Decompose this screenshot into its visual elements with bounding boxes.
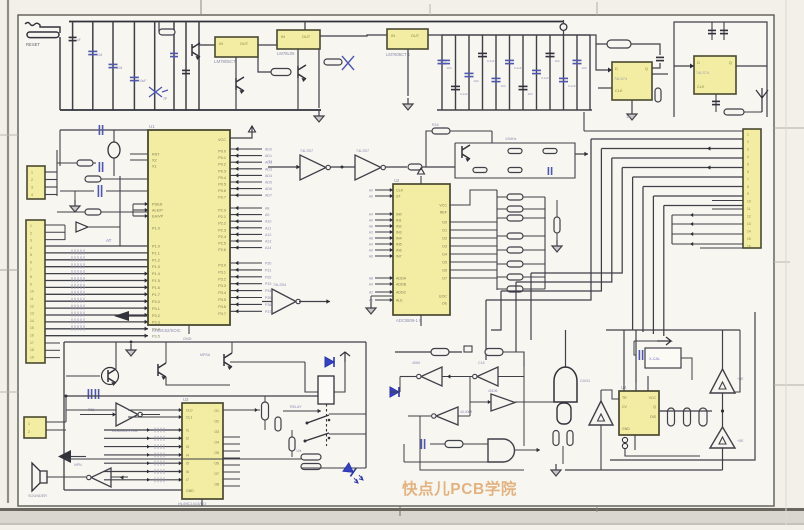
svg-text:GND: GND: [183, 337, 192, 341]
and gate feed b: [404, 461, 488, 463]
bus wire B4: [622, 167, 743, 169]
svg-text:2: 2: [28, 430, 30, 434]
bus wire B3 vertical: [516, 158, 612, 282]
capacitor C31 v: [275, 417, 281, 431]
ladder resistor R22: [507, 215, 523, 221]
J4 top feed vert: [583, 112, 585, 131]
Q12 to rail: [297, 78, 299, 110]
J4 short wire c3: [672, 243, 743, 245]
osc out arrow: [575, 153, 588, 155]
svg-text:P2.3: P2.3: [218, 228, 226, 232]
display driver U3: [182, 403, 223, 499]
U6 top drop wire: [304, 22, 306, 31]
J2 bus wire 10: [45, 307, 148, 309]
FF2 right wire: [736, 65, 767, 67]
svg-text:4: 4: [747, 155, 749, 159]
svg-text:T1: T1: [268, 160, 272, 164]
svg-text:VCC: VCC: [649, 396, 657, 400]
ladder resistor R23: [507, 233, 523, 239]
U1 port2 pin wires: [230, 207, 262, 209]
svg-text:RESET: RESET: [26, 42, 40, 47]
J2 bus wire 5: [45, 273, 148, 275]
svg-text:P2.6: P2.6: [218, 248, 226, 252]
svg-text:12: 12: [747, 215, 751, 219]
svg-text:P30: P30: [265, 262, 271, 266]
J1 pin 4 wire: [45, 194, 57, 196]
op-amp A1: [710, 369, 735, 393]
U15 out wire: [515, 449, 541, 451]
small box R35: [464, 346, 472, 352]
decoupling branch wire 5: [154, 22, 156, 111]
U2 left pin stubs: [375, 189, 393, 191]
svg-text:P3.4: P3.4: [152, 328, 160, 332]
svg-text:I5: I5: [186, 462, 189, 466]
bottom rail wires: [66, 458, 301, 460]
bus wire B2: [601, 148, 743, 150]
zone tick top 3: [596, 2, 598, 15]
diode to gate wire: [390, 391, 400, 393]
U2 upper right wires: [450, 190, 497, 205]
svg-text:P3.1: P3.1: [218, 270, 226, 274]
svg-text:A8: A8: [369, 236, 373, 240]
decoupling branch wire 3: [112, 22, 114, 111]
diode D4 blue: [390, 387, 399, 397]
svg-text:104: 104: [582, 66, 587, 70]
filled arrow gnd: [58, 450, 71, 463]
svg-text:IN: IN: [391, 33, 395, 38]
U1 left stub join: [132, 204, 134, 216]
J4 top feed wire: [584, 130, 743, 132]
svg-text:I7: I7: [186, 478, 189, 482]
svg-text:U3: U3: [183, 397, 189, 402]
svg-text:O8: O8: [214, 483, 219, 487]
U12 in wire: [80, 414, 116, 416]
switch lever 2: [305, 433, 329, 441]
relay block top wire: [230, 361, 305, 363]
bus wire B8 vertical: [663, 206, 665, 337]
J1 riser wire: [56, 150, 58, 196]
bank2 capacitor C13: [478, 52, 487, 54]
svg-text:15: 15: [747, 237, 751, 241]
Q2 collector: [165, 342, 167, 363]
U3 bottom stem: [201, 499, 203, 506]
svg-text:3: 3: [31, 186, 33, 190]
svg-text:NPN: NPN: [74, 463, 82, 467]
svg-text:P3.3: P3.3: [152, 321, 160, 325]
555 feed vert a: [623, 330, 625, 383]
svg-text:C4011: C4011: [580, 379, 590, 383]
svg-text:CL0: CL0: [186, 408, 192, 412]
U16 inputs wire: [538, 401, 554, 403]
cluster vert b: [119, 176, 121, 246]
resistor R9: [85, 176, 101, 182]
svg-text:P3.0: P3.0: [152, 300, 160, 304]
svg-text:A10: A10: [265, 220, 271, 224]
cluster vert a: [59, 130, 61, 166]
inverter U14A: [421, 367, 442, 386]
svg-text:I6: I6: [186, 470, 189, 474]
J2 bus wire 11: [45, 314, 148, 316]
crystal wires: [113, 130, 115, 142]
switch lever 1: [307, 415, 329, 423]
svg-text:PSEN: PSEN: [152, 203, 163, 207]
zone tick top 2: [429, 4, 431, 15]
vert link: [469, 377, 471, 417]
U4 pin texts: [622, 396, 630, 431]
svg-text:A4: A4: [369, 242, 373, 246]
C27 wires: [60, 190, 94, 192]
svg-text:104: 104: [447, 66, 452, 70]
bank2 capacitor C19: [559, 77, 568, 79]
bus wire B8: [664, 205, 743, 207]
wire to R2: [158, 22, 160, 33]
resistor R7: [724, 109, 744, 115]
op-amp A2: [710, 427, 735, 448]
svg-text:A0: A0: [369, 248, 373, 252]
svg-text:A0: A0: [369, 218, 373, 222]
inverter U14D: [436, 407, 458, 425]
J2 bus wire 1: [45, 245, 148, 247]
osc transistor Q13: [462, 145, 470, 159]
bank2 branch 3: [468, 35, 470, 110]
osc riser from buffer line: [426, 131, 432, 167]
shaper body: [557, 403, 571, 424]
svg-text:P33: P33: [265, 282, 271, 286]
zone tick right 3: [774, 384, 804, 386]
connector J4: [743, 129, 761, 248]
resistor R37: [445, 441, 463, 448]
svg-text:104: 104: [528, 92, 533, 96]
transistor Q12: [298, 65, 306, 79]
ladder resistor R26: [507, 274, 523, 280]
svg-text:P0.4: P0.4: [218, 176, 226, 180]
Q2 wires: [166, 377, 230, 385]
svg-text:10: 10: [30, 290, 34, 294]
svg-text:6: 6: [30, 261, 32, 265]
resistor R4: [324, 59, 342, 65]
and gate feed a: [430, 443, 445, 445]
svg-text:1k: 1k: [626, 114, 630, 119]
U1 bottom gnd arrow: [114, 311, 129, 321]
J2 bus wire 12: [45, 321, 148, 323]
svg-text:A2: A2: [369, 290, 373, 294]
bank2 branch 2: [455, 35, 457, 110]
svg-text:A9: A9: [265, 213, 269, 217]
svg-text:X1: X1: [152, 165, 157, 169]
J2 lower pin stubs: [45, 342, 60, 344]
J4 short wire c0: [672, 214, 743, 216]
J4 short wire c2: [672, 233, 743, 235]
svg-text:0.1uF: 0.1uF: [514, 66, 522, 70]
U2 gnd: [366, 302, 376, 314]
switch dashed link: [326, 404, 328, 446]
U14B wires: [457, 376, 472, 378]
svg-text:AD6: AD6: [265, 187, 272, 191]
U12 out wire: [141, 414, 160, 416]
svg-text:0.1uF: 0.1uF: [568, 84, 576, 88]
bus wire B7 vertical: [652, 196, 654, 334]
capacitor C32: [420, 439, 422, 449]
bank2 branch 9: [549, 35, 551, 110]
right outer vert: [610, 312, 755, 460]
FF2 enclosure wire: [674, 22, 767, 117]
svg-text:P36: P36: [265, 303, 271, 307]
bank2 branch 6: [509, 35, 511, 110]
bank2 branch 11: [576, 35, 578, 110]
zone tick left 3: [0, 391, 18, 393]
ground G6: [126, 344, 136, 356]
svg-text:P3.2: P3.2: [218, 277, 226, 281]
long wire mid audio 2: [66, 409, 116, 411]
U4 top pins: [623, 383, 625, 391]
A3 circ wire: [601, 390, 619, 399]
svg-text:A6: A6: [369, 224, 373, 228]
svg-text:A2: A2: [369, 230, 373, 234]
resistor R38 v: [553, 431, 559, 446]
resistor R10: [85, 209, 101, 215]
rail link down: [563, 20, 565, 24]
U3 right wires long: [223, 409, 260, 411]
U3 pin texts: [186, 408, 194, 493]
timer U4: [619, 391, 659, 435]
svg-text:P1.6: P1.6: [152, 286, 160, 290]
U2 D-pin wires: [450, 221, 497, 223]
svg-text:O2: O2: [214, 420, 219, 424]
cluster top wire: [60, 129, 148, 131]
audio block left wire: [63, 342, 65, 490]
resistor R30 vertical: [262, 402, 269, 420]
svg-text:TR: TR: [622, 396, 627, 400]
svg-text:CLK: CLK: [615, 89, 623, 93]
bus corner turns left: [485, 300, 487, 360]
resistor R39 v: [567, 431, 573, 446]
svg-text:AD4: AD4: [265, 174, 272, 178]
buffer out wire: [385, 166, 407, 168]
connector J3: [24, 417, 46, 438]
op-amp A3: [589, 401, 613, 425]
capacitor C0: [69, 36, 77, 38]
svg-text:CLK: CLK: [396, 189, 404, 193]
resistor R8: [77, 160, 93, 166]
svg-text:X2: X2: [152, 159, 157, 163]
svg-text:O4: O4: [214, 441, 219, 445]
J2 bus wire 7: [45, 286, 148, 288]
svg-text:10uF: 10uF: [139, 79, 146, 83]
bus wire B2 vertical: [501, 149, 601, 292]
svg-text:D3: D3: [442, 245, 447, 249]
J2 bus wire 4: [45, 266, 148, 268]
flip-flop U9: [694, 56, 736, 94]
J4 short wire b: [702, 167, 743, 169]
svg-text:P3.5: P3.5: [218, 298, 226, 302]
antenna symbol: [756, 88, 768, 112]
U1 left stub mid: [133, 203, 148, 205]
svg-text:P1.5: P1.5: [152, 279, 160, 283]
U4 bottom pin b: [634, 435, 636, 450]
diode arrow D1: [76, 222, 88, 232]
right margin streak: [785, 0, 787, 525]
regulator U5 input wire: [199, 44, 215, 46]
svg-text:IN3: IN3: [396, 231, 402, 235]
transistor Q10: [192, 43, 200, 57]
svg-text:P0.7: P0.7: [218, 196, 226, 200]
ground G7: [551, 464, 561, 476]
gate feed wire right: [503, 352, 524, 367]
svg-text:VCC: VCC: [218, 138, 226, 142]
R31 wires: [291, 430, 293, 437]
svg-text:104: 104: [117, 66, 123, 70]
FF2 cap stub a: [711, 22, 713, 40]
resistor R13: [508, 149, 522, 154]
svg-text:A8: A8: [369, 276, 373, 280]
svg-text:LM7805CT: LM7805CT: [214, 59, 236, 64]
svg-text:A4: A4: [369, 282, 373, 286]
right section top wire: [606, 329, 740, 331]
transistor Q3: [224, 353, 232, 367]
capacitor C1: [88, 50, 97, 52]
svg-text:104: 104: [97, 53, 103, 57]
svg-text:4: 4: [30, 246, 32, 250]
power arrow right: [657, 337, 671, 345]
svg-text:ADDB: ADDB: [396, 283, 407, 287]
transistor Q1: [102, 368, 119, 385]
OR gate U16 vertical: [554, 367, 577, 402]
svg-text:P1.0: P1.0: [152, 227, 160, 231]
resistor R15: [508, 168, 522, 173]
bank2 capacitor C14: [492, 77, 501, 79]
A3 top wire: [600, 390, 602, 401]
J2 bus wire 13: [45, 328, 148, 330]
power stub: [340, 352, 350, 362]
svg-text:74LS04: 74LS04: [273, 283, 286, 287]
osc enclosure: [455, 143, 575, 178]
svg-text:U1: U1: [149, 124, 155, 129]
svg-text:2: 2: [747, 140, 749, 144]
bus wire B1: [591, 138, 743, 140]
svg-text:IN: IN: [281, 34, 285, 39]
svg-text:A6: A6: [369, 254, 373, 258]
svg-text:A11: A11: [265, 226, 271, 230]
svg-text:10: 10: [747, 200, 751, 204]
bus wire B6: [643, 186, 743, 188]
svg-text:P3.1: P3.1: [152, 307, 160, 311]
U1 pin names: [152, 153, 164, 339]
svg-text:ADDA: ADDA: [396, 277, 407, 281]
svg-text:5: 5: [747, 162, 749, 166]
svg-text:P3.0: P3.0: [218, 264, 226, 268]
svg-text:P2.1: P2.1: [218, 215, 226, 219]
LED D3 arrows: [354, 475, 363, 483]
svg-text:OUT: OUT: [240, 41, 249, 46]
svg-text:8: 8: [30, 275, 32, 279]
svg-text:P1.0: P1.0: [152, 245, 160, 249]
U1 port0 pin wires: [230, 148, 262, 150]
U4 bottom wire loop: [625, 449, 700, 456]
arrow junction: [255, 408, 258, 412]
connector J2: [26, 220, 45, 363]
NOT gate U12: [116, 403, 138, 426]
FF2 bottom stem: [715, 94, 717, 112]
svg-text:Q: Q: [645, 66, 648, 71]
U7 output wire: [428, 34, 442, 36]
capacitor C21: [656, 56, 664, 58]
U13 wires: [70, 476, 86, 478]
svg-text:OUT: OUT: [411, 33, 420, 38]
FF1 bottom stem: [631, 100, 633, 108]
ladder resistor R20: [507, 194, 523, 200]
svg-text:4069: 4069: [412, 361, 420, 365]
buffer out wire b: [422, 166, 455, 168]
A1 bottom wire: [722, 393, 724, 427]
decoupling branch wire 6: [173, 22, 175, 111]
reset hook squiggle: [25, 23, 60, 34]
svg-text:I3: I3: [186, 445, 189, 449]
J2 bus wire 9: [45, 300, 148, 302]
svg-text:D7: D7: [442, 277, 447, 281]
svg-text:P2.5: P2.5: [218, 242, 226, 246]
U3 left wire hatches: [154, 428, 156, 433]
resistor R36: [485, 349, 503, 356]
svg-text:8: 8: [747, 185, 749, 189]
svg-text:Q: Q: [729, 60, 732, 65]
R10 wires: [57, 211, 85, 213]
svg-text:1: 1: [747, 133, 749, 137]
MCU U1 body: [148, 130, 230, 325]
svg-text:LM78L05: LM78L05: [277, 51, 295, 56]
ladder resistor R21: [507, 206, 523, 212]
svg-text:1: 1: [28, 422, 30, 426]
buffer U10A: [300, 155, 326, 180]
svg-text:12: 12: [30, 304, 34, 308]
svg-text:R16: R16: [432, 123, 439, 127]
decoupling branch wire 2: [92, 22, 94, 111]
capacitor C3: [130, 76, 139, 78]
svg-text:P0.6: P0.6: [218, 189, 226, 193]
variable capacitor C5: [149, 87, 168, 97]
svg-text:7: 7: [747, 177, 749, 181]
bank2 capacitor C20: [573, 59, 582, 61]
svg-text:P3.5: P3.5: [152, 335, 160, 339]
diode D2 blue: [325, 357, 334, 367]
svg-text:AD1: AD1: [265, 154, 272, 158]
osc wire top: [450, 130, 492, 132]
audio block top wire: [64, 341, 366, 343]
svg-text:5: 5: [30, 253, 32, 257]
top power rail: [69, 21, 563, 23]
svg-text:P0.0: P0.0: [218, 150, 226, 154]
resistor R17 on buffer output: [408, 164, 422, 170]
FF2 left wire: [674, 65, 694, 67]
J2 bus wire 8: [45, 293, 148, 295]
capacitor C26: [98, 162, 100, 172]
bus wire B3: [612, 157, 743, 159]
svg-text:ADDC: ADDC: [396, 291, 407, 295]
svg-text:6: 6: [747, 170, 749, 174]
transistor Q2: [158, 363, 166, 377]
bus wire B4 vertical: [531, 168, 622, 274]
capacitor C9: [440, 59, 450, 61]
svg-text:A12: A12: [265, 233, 271, 237]
J4 lower short wires: [712, 200, 743, 202]
bank2 capacitor C15: [505, 59, 514, 61]
svg-text:P3.4: P3.4: [218, 291, 226, 295]
svg-text:X-CAL: X-CAL: [649, 357, 660, 361]
mid gnd wire: [318, 49, 320, 108]
svg-text:104: 104: [555, 59, 560, 63]
svg-text:13: 13: [30, 312, 34, 316]
U2 top stub: [420, 176, 422, 184]
svg-text:U2: U2: [394, 178, 400, 183]
